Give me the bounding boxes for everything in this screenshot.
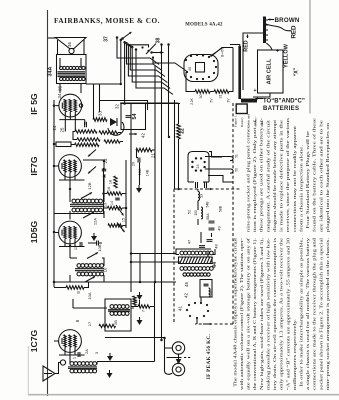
label 8 — [133, 299, 138, 302]
svg-text:34: 34 — [57, 93, 62, 98]
svg-text:21: 21 — [151, 153, 156, 158]
svg-text:2A: 2A — [84, 349, 89, 354]
switch feed verticals — [120, 39, 126, 104]
svg-text:only approximately 1.3 amperes: only approximately 1.3 amperes. As a two… — [279, 238, 284, 390]
svg-text:16A: 16A — [138, 168, 142, 175]
diode detector — [108, 118, 124, 135]
air cell terminals — [253, 43, 279, 97]
battery plug panel 40 — [184, 48, 222, 82]
wire if7g plate — [70, 160, 104, 220]
svg-text:IF 5G: IF 5G — [29, 93, 39, 115]
svg-text:31: 31 — [219, 95, 223, 99]
wire mid bus 1 — [154, 66, 156, 282]
wire bottom right — [197, 219, 212, 324]
speaker 36 — [56, 38, 87, 54]
svg-text:14B: 14B — [146, 169, 150, 176]
svg-text:44: 44 — [212, 262, 218, 268]
socket wires right — [205, 154, 239, 173]
label BROWN — [268, 17, 300, 24]
label 10 — [103, 267, 108, 272]
svg-text:54B: 54B — [206, 201, 210, 208]
svg-text:54: 54 — [132, 114, 138, 120]
svg-text:35: 35 — [58, 86, 63, 91]
svg-text:Four Standard Battery Plugs wi: Four Standard Battery Plugs will be — [305, 131, 310, 232]
wire under ift2 — [54, 213, 104, 215]
wire 1c7g — [54, 341, 97, 365]
svg-text:with automatic volume control: with automatic volume control (Figure 2)… — [239, 237, 244, 390]
label YELLOW — [284, 43, 290, 68]
page corner edge — [27, 346, 29, 395]
svg-text:+: + — [276, 49, 279, 55]
resistor 17 — [99, 324, 116, 327]
svg-text:25: 25 — [60, 127, 65, 132]
svg-text:17: 17 — [87, 321, 92, 326]
labels 16A 14B — [138, 168, 150, 176]
wire panel link — [211, 48, 233, 57]
labels 2.2K 5V 3V — [190, 97, 231, 104]
arrow 42a — [129, 133, 146, 138]
svg-text:42: 42 — [141, 133, 146, 138]
svg-text:The model 4A48 chassis employs: The model 4A48 chassis employs a superhe… — [232, 237, 237, 390]
label 23 — [103, 158, 108, 163]
svg-text:10A: 10A — [87, 292, 92, 299]
svg-text:+: + — [254, 88, 257, 94]
svg-text:nine-prong socket arrangement: nine-prong socket arrangement is provide… — [325, 238, 330, 390]
box 54 — [121, 104, 180, 130]
svg-text:socket panel shown in Figure 2: socket panel shown in Figure 2. To accom… — [318, 237, 323, 390]
svg-text:100: 100 — [194, 210, 198, 216]
transformer 34A — [57, 55, 87, 94]
resistor 6 — [133, 296, 136, 306]
wire harness drop — [174, 100, 176, 189]
page bottom edge — [28, 394, 339, 396]
band switch harness wires — [116, 36, 173, 94]
ift2 coils — [70, 199, 104, 212]
cap 49 — [209, 221, 222, 231]
svg-text:10: 10 — [103, 267, 108, 272]
label 35 — [58, 86, 63, 91]
svg-text:50: 50 — [235, 168, 239, 172]
resistor 18 — [109, 176, 118, 188]
svg-text:“X”: “X” — [294, 67, 300, 76]
svg-text:BATTERIES: BATTERIES — [263, 106, 299, 112]
gnd 20 — [136, 185, 142, 193]
wire avc bus — [100, 101, 148, 111]
svg-text:IF PEAK 456 KC.: IF PEAK 456 KC. — [206, 333, 212, 379]
label 17 — [87, 321, 92, 326]
jack wires — [163, 337, 172, 375]
svg-text:plugged into the Standard Rece: plugged into the Standard Receptacles on — [325, 123, 330, 232]
svg-text:12B: 12B — [87, 182, 92, 189]
cap 11 — [73, 241, 102, 251]
wire col 154 — [154, 282, 156, 362]
svg-text:making possible a receiver of: making possible a receiver of high sensi… — [265, 237, 270, 390]
ift2 trimmer arrows — [81, 193, 94, 219]
wire osc — [131, 300, 155, 307]
avc resistor row 3 — [54, 142, 99, 147]
title FAIRBANKS, MORSE & CO. — [54, 17, 160, 25]
gnd 1d5g — [91, 233, 97, 241]
svg-text:48: 48 — [214, 244, 219, 249]
resistor 22 — [177, 124, 186, 139]
wire 44 — [176, 249, 215, 255]
svg-text:30: 30 — [199, 95, 203, 99]
cap 24 — [52, 122, 86, 133]
wire row 282 — [54, 281, 176, 283]
svg-text:tery drain. On air-cell operat: tery drain. On air-cell operation the cu… — [272, 237, 277, 390]
svg-text:from a chassis inspection alon: from a chassis inspection alone. — [299, 145, 304, 232]
svg-text:ate equally well on a six-volt: ate equally well on a six-volt storage b… — [246, 237, 251, 390]
svg-text:BROWN: BROWN — [275, 17, 300, 24]
switch arm 38 — [146, 44, 164, 59]
svg-text:1C7G: 1C7G — [29, 329, 39, 352]
label 6 — [130, 306, 135, 309]
wire mid bus 2 — [161, 45, 163, 341]
battery plug bar — [263, 17, 268, 44]
wire row 253 — [131, 253, 176, 255]
cap 48 — [207, 240, 219, 249]
svg-text:36: 36 — [67, 42, 72, 47]
label IF 5G — [29, 93, 39, 115]
svg-text:FAIRBANKS, MORSE & CO.: FAIRBANKS, MORSE & CO. — [54, 17, 160, 25]
wire feed 361 — [97, 361, 155, 363]
gnd osc2 — [137, 317, 143, 325]
resistor 9 — [54, 282, 89, 294]
svg-text:RED: RED — [291, 25, 298, 39]
svg-text:2B: 2B — [113, 320, 118, 325]
label RED left — [244, 35, 250, 52]
label IF PEAK 456 KC — [206, 333, 212, 379]
svg-text:52: 52 — [187, 209, 192, 214]
svg-text:47: 47 — [187, 239, 192, 244]
svg-text:these prongs are used on eithe: these prongs are used on either battery … — [259, 117, 264, 232]
wire brown lead — [243, 33, 263, 90]
label TO B AND C BATTERIES — [256, 97, 305, 112]
svg-text:rangement. A careful study of: rangement. A careful study of the circui… — [265, 119, 270, 232]
svg-text:IF7G: IF7G — [29, 156, 39, 175]
svg-text:diagram should be made before: diagram should be made before any attemp… — [272, 119, 277, 232]
svg-text:milliamperes respectively.: milliamperes respectively. — [292, 319, 297, 390]
label AIR CELL — [267, 58, 273, 84]
label 38 — [156, 38, 162, 44]
svg-text:Battery: Battery — [240, 117, 244, 127]
label X — [294, 67, 300, 76]
svg-text:YELLOW: YELLOW — [284, 43, 290, 68]
svg-text:45: 45 — [184, 282, 189, 287]
cap 1 — [72, 352, 80, 359]
svg-text:Figure 1.: Figure 1. — [234, 115, 238, 127]
battery plug box — [236, 104, 247, 114]
svg-text:is made to replace defective p: is made to replace defective parts in th… — [279, 120, 284, 232]
models label — [185, 23, 223, 28]
resistor 33 — [93, 118, 107, 122]
svg-text:TO“B”AND“C”: TO“B”AND“C” — [263, 99, 305, 105]
svg-text:49: 49 — [217, 226, 222, 231]
label 12B — [87, 182, 92, 189]
gnd t4b — [107, 370, 113, 378]
avc resistor row 1 — [75, 130, 118, 134]
antenna coil — [60, 360, 97, 373]
output transformer 44 — [179, 251, 214, 276]
coil 100b — [209, 288, 214, 297]
label 52 — [187, 209, 192, 214]
ift1 trimmer arrows — [85, 253, 98, 283]
wire red lead — [266, 24, 291, 31]
label 58A — [206, 213, 210, 220]
svg-text:58B: 58B — [219, 205, 223, 212]
ift1 coils — [75, 264, 104, 276]
battery cable lead — [241, 99, 257, 103]
svg-text:“A” and “B” currents are appro: “A” and “B” currents are approximately .… — [285, 238, 290, 390]
switch arrow 37 — [121, 32, 131, 40]
wire speaker corner — [48, 37, 56, 39]
label 10B — [97, 244, 102, 251]
svg-text:58A: 58A — [206, 213, 210, 220]
wire top link — [128, 45, 150, 52]
cap 47 — [187, 239, 206, 247]
cap 14 — [110, 198, 120, 205]
body text column A — [232, 237, 330, 390]
wire row 262 — [131, 261, 180, 263]
cap 46 — [204, 284, 209, 286]
svg-text:100: 100 — [210, 290, 214, 296]
svg-text:38: 38 — [156, 38, 162, 44]
label 33 — [98, 111, 103, 116]
svg-text:14: 14 — [110, 201, 114, 205]
label 37 — [104, 36, 110, 42]
svg-text:24: 24 — [196, 164, 200, 168]
svg-text:AIR CELL: AIR CELL — [267, 58, 273, 84]
jack ground arrow — [167, 354, 193, 365]
svg-text:1D5G: 1D5G — [29, 220, 39, 243]
resistor 21 — [136, 148, 156, 158]
avc arrows — [88, 150, 96, 174]
jack 2 — [172, 363, 184, 375]
svg-text:20: 20 — [132, 162, 136, 166]
wire col 140 — [139, 254, 141, 283]
svg-text:nine-prong socket and plug pan: nine-prong socket and plug panel connec- — [246, 122, 251, 232]
speaker socket 24 — [188, 152, 209, 189]
figure 1 caption — [234, 114, 264, 127]
wire tube1 drops — [65, 120, 85, 132]
svg-text:12A: 12A — [93, 218, 98, 225]
tube IF7G — [55, 155, 84, 180]
svg-text:are identical to each other an: are identical to each other and are to b… — [318, 120, 323, 232]
tube 1D5G — [55, 221, 84, 246]
wire grid feed — [86, 84, 121, 120]
svg-text:41: 41 — [178, 306, 183, 311]
label 54 — [126, 114, 139, 120]
label 2A — [84, 349, 89, 354]
wire col 131 — [130, 103, 132, 292]
page left border — [47, 10, 49, 396]
wire avc2 — [73, 132, 123, 142]
svg-text:MODELS 4A,42: MODELS 4A,42 — [185, 23, 223, 28]
svg-text:2.2K: 2.2K — [190, 97, 194, 104]
label 19 — [102, 169, 107, 178]
dashed box power unit — [174, 103, 240, 324]
wire osc feed — [73, 299, 107, 308]
dashed arrow — [203, 323, 212, 325]
label 41 — [178, 306, 183, 311]
svg-text:18: 18 — [109, 180, 113, 184]
svg-text:found on the battery cable. Th: found on the battery cable. Three of the… — [312, 118, 317, 232]
wire 1d5g — [70, 246, 104, 283]
avc resistor row 2 — [77, 138, 120, 143]
tube 34 — [55, 93, 84, 120]
label 58B — [219, 205, 223, 212]
label 1D5G — [29, 220, 39, 243]
wire panel to resistors — [186, 48, 233, 92]
body text column B — [246, 117, 330, 232]
svg-text:15: 15 — [122, 218, 126, 222]
label 3 — [94, 351, 99, 354]
label RED right — [291, 25, 298, 39]
label 42b — [184, 293, 189, 298]
label IF7G — [29, 156, 39, 175]
coil 53 — [198, 189, 210, 210]
svg-text:53: 53 — [200, 194, 204, 198]
osc box — [105, 299, 131, 331]
svg-text:24: 24 — [52, 125, 57, 130]
svg-text:40: 40 — [188, 67, 192, 71]
wire switch to panel — [153, 58, 187, 72]
label 2B — [113, 320, 118, 325]
resistor 15 — [108, 205, 126, 222]
resistor 30 — [195, 90, 210, 99]
cap 20 — [132, 150, 156, 185]
label 45 — [184, 282, 189, 287]
svg-text:connections are made to the re: connections are made to the receiver thr… — [312, 237, 317, 390]
svg-text:37: 37 — [104, 36, 110, 42]
antenna — [43, 363, 60, 382]
gnd t4a — [107, 353, 113, 361]
jack 1 — [172, 342, 184, 354]
rect 58 — [200, 280, 212, 298]
wire 22 — [168, 103, 179, 189]
cluster rails — [104, 160, 127, 228]
svg-text:16: 16 — [107, 187, 111, 191]
svg-text:32: 32 — [115, 104, 120, 109]
tube 1C7G — [55, 330, 84, 355]
svg-text:34A: 34A — [48, 66, 54, 76]
label 44 — [212, 262, 218, 268]
svg-text:22: 22 — [180, 128, 186, 134]
svg-text:33: 33 — [98, 111, 103, 116]
wire feed 338 — [105, 337, 165, 339]
osc coils — [108, 305, 130, 316]
wire row 103 — [120, 102, 179, 104]
socket corner wires — [208, 152, 233, 183]
svg-text:42: 42 — [184, 293, 189, 298]
resistor 31 — [214, 90, 229, 99]
svg-text:RED: RED — [244, 40, 250, 51]
label 1C7G — [29, 329, 39, 352]
wire speaker lead — [58, 40, 85, 55]
wire mid bus 3 — [168, 45, 170, 138]
svg-text:a single chassis is used for a: a single chassis is used for all models.… — [305, 237, 310, 390]
coil 100a — [194, 207, 203, 219]
label 34A — [48, 66, 54, 76]
svg-text:10B: 10B — [97, 244, 102, 251]
battery cable — [230, 45, 241, 100]
label B+45V — [221, 46, 225, 57]
socket dots bottom — [186, 302, 209, 319]
svg-text:tion is employed (Figure 2). O: tion is employed (Figure 2). Only part o… — [252, 119, 257, 232]
resistor 15b — [108, 223, 125, 233]
label 13 — [103, 202, 108, 207]
label 32 — [115, 104, 120, 109]
dashed arrow 189 — [205, 188, 213, 190]
gnd osc1 — [137, 292, 143, 300]
label 12A — [93, 218, 98, 225]
svg-text:51: 51 — [235, 154, 239, 158]
air cell box — [258, 50, 284, 93]
resistor 16 — [107, 187, 122, 195]
label 10A — [87, 292, 92, 299]
wire left bus — [53, 100, 55, 287]
label 8b — [75, 319, 80, 322]
page column rule — [309, 0, 311, 114]
svg-text:connections may not be readily: connections may not be readily apparent — [292, 125, 297, 232]
resistor 7 — [138, 305, 150, 312]
